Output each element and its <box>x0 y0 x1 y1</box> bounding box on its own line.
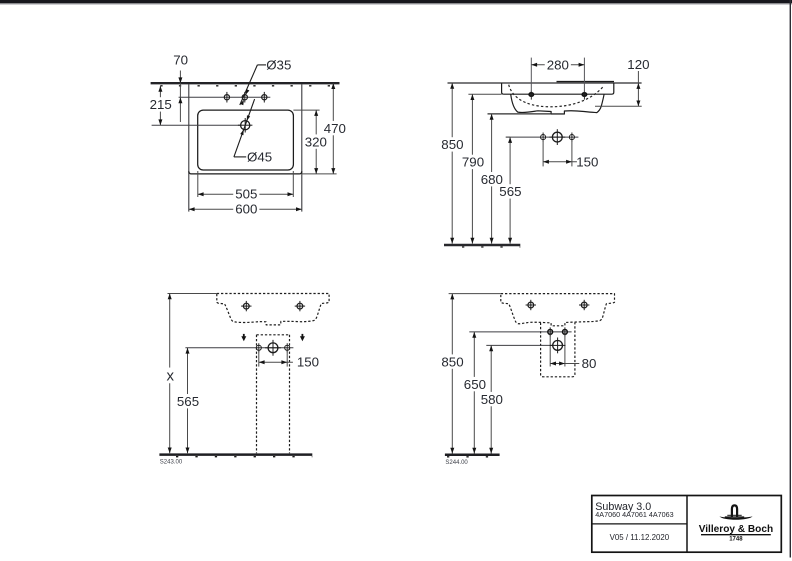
floor line pedestal view <box>159 453 312 456</box>
svg-text:S243.00: S243.00 <box>160 459 183 465</box>
title block horizontal divider <box>592 523 687 525</box>
dimension 850 text <box>439 137 465 151</box>
basin body silhouette <box>511 94 604 114</box>
dimension 790 text <box>460 155 486 169</box>
floor hatch ticks front view <box>462 246 520 248</box>
Villeroy and Boch logo plinth lines <box>727 514 741 516</box>
fixing hole right (280) <box>582 93 587 97</box>
dimension 650 line and arrows <box>473 332 475 454</box>
dimension 850 line and arrows siphon view <box>451 294 453 454</box>
page top border bar <box>0 0 792 3</box>
title block outer frame <box>592 496 782 553</box>
svg-text:565: 565 <box>499 184 521 199</box>
80 extension lines <box>549 335 551 367</box>
dimension 565 text pedestal view <box>175 394 201 408</box>
120 bottom extension line <box>595 105 642 107</box>
150 extension lines front view <box>542 140 544 166</box>
svg-text:580: 580 <box>481 392 503 407</box>
drain hole centre line <box>152 124 241 126</box>
dimension 320 text <box>303 134 329 148</box>
faucet hole right <box>262 95 267 100</box>
790 dimension line and arrows <box>471 94 473 243</box>
fixing hole right dashed view <box>297 303 303 309</box>
faucet hole centre line <box>179 96 271 98</box>
basin outer outline right edge + extensions <box>301 84 303 211</box>
basin outer outline left edge + 600 extension <box>188 84 190 211</box>
floor hatch ticks siphon view <box>447 456 500 458</box>
dimension 470 line and arrows <box>332 83 334 174</box>
front view rim band outline <box>502 83 614 94</box>
tap hole centre line pedestal view <box>185 347 293 349</box>
650 extension line through bolt holes <box>469 331 571 333</box>
leader line O45 <box>234 156 246 158</box>
bowl top edge extension to 320 dimension <box>293 109 319 111</box>
dashed basin outline with pedestal view <box>217 294 329 325</box>
siphon cover dashed outline <box>541 322 575 376</box>
dimension 80 line and arrows <box>550 363 579 365</box>
505 extension lines <box>197 171 199 197</box>
svg-text:S244.00: S244.00 <box>445 460 468 466</box>
dimension 280 line and arrows <box>531 64 584 66</box>
faucet hole middle (O35) <box>242 95 247 100</box>
dimension 680 text <box>479 172 505 186</box>
tap hole left small pedestal view <box>256 345 261 350</box>
floor line front view <box>444 244 520 247</box>
dimension 150 line and arrows pedestal view <box>259 361 293 363</box>
dimension 320 line and arrows <box>315 110 317 174</box>
siphon bolt hole left <box>548 330 553 335</box>
svg-text:600: 600 <box>235 202 257 217</box>
dimension 505 text <box>233 187 259 201</box>
front view back ledge thick segment <box>557 81 615 83</box>
svg-text:850: 850 <box>441 137 463 152</box>
dimension 150 line and arrows front view <box>543 161 577 163</box>
mounting bolt arrow right <box>302 334 304 337</box>
svg-text:650: 650 <box>464 377 486 392</box>
svg-text:150: 150 <box>576 154 598 169</box>
page right border line <box>790 0 791 558</box>
dashed basin outline siphon cover view <box>501 294 615 326</box>
basin inner bowl rounded rectangle <box>198 110 294 170</box>
svg-text:120: 120 <box>627 57 649 72</box>
dimension 120 line and arrows <box>637 71 639 106</box>
svg-text:470: 470 <box>324 121 346 136</box>
dimension 650 text <box>462 377 488 391</box>
565 extension line to tap holes <box>506 136 510 138</box>
leader line O35 <box>257 64 266 66</box>
svg-text:320: 320 <box>305 134 327 149</box>
790 extension line to rim underside <box>468 93 501 95</box>
Villeroy and Boch logo underline <box>701 534 771 536</box>
svg-text:x: x <box>166 368 174 385</box>
dimension 580 line and arrows <box>490 345 492 453</box>
tap hole right small front view <box>569 135 574 140</box>
280 extension lines through rim <box>530 58 532 92</box>
Villeroy and Boch logo amphora handle <box>732 505 737 517</box>
front view rim top line <box>448 82 642 84</box>
floor line siphon view <box>445 453 500 456</box>
dimension x text <box>164 368 176 384</box>
title block vertical divider <box>686 496 688 553</box>
dimension 215 text <box>148 97 174 111</box>
tap hole centre line front view <box>506 136 579 138</box>
faucet hole left <box>224 95 229 100</box>
dimension 565 line and arrows pedestal view <box>187 348 189 454</box>
dimension x line and arrows <box>169 294 171 454</box>
x extension line to basin top <box>168 293 217 295</box>
plan view wall line <box>151 82 340 84</box>
svg-text:V05 / 11.12.2020: V05 / 11.12.2020 <box>610 533 670 542</box>
tap hole left small front view <box>541 135 546 140</box>
fixing hole left siphon view <box>528 302 534 308</box>
svg-text:Villeroy & Boch: Villeroy & Boch <box>699 524 773 535</box>
mounting bolt arrow left <box>243 334 245 337</box>
svg-text:850: 850 <box>441 354 463 369</box>
svg-text:Ø35: Ø35 <box>266 58 291 73</box>
580 extension line to drain <box>486 344 553 346</box>
svg-text:Ø45: Ø45 <box>247 149 272 164</box>
svg-text:215: 215 <box>150 97 172 112</box>
drain hole circle siphon view <box>553 341 563 351</box>
fixing hole right siphon view <box>581 302 587 308</box>
svg-text:505: 505 <box>235 187 257 202</box>
svg-text:80: 80 <box>582 356 597 371</box>
fixing hole left (280) <box>529 93 534 97</box>
svg-text:4A7060 4A7061 4A7063: 4A7060 4A7061 4A7063 <box>595 510 673 519</box>
svg-text:790: 790 <box>462 155 484 170</box>
dimension 680 line and arrows <box>491 114 493 244</box>
dimension 565 line and arrows front view <box>509 137 511 244</box>
dimension 280 text <box>545 57 571 71</box>
svg-text:280: 280 <box>547 57 569 72</box>
tap hole right small pedestal view <box>285 345 290 350</box>
dimension 565 text front view <box>497 184 523 198</box>
svg-text:1748: 1748 <box>729 536 743 542</box>
plan view wall hatch ticks <box>160 85 339 87</box>
fixing hole left dashed view <box>243 303 249 309</box>
850 extension line to basin top right view <box>449 293 501 295</box>
680 extension line under basin <box>488 113 565 115</box>
tap hole centre circle front view <box>552 132 562 142</box>
dimension 850 line and arrows <box>451 83 453 244</box>
150 extension lines pedestal view <box>258 351 260 367</box>
floor hatch ticks pedestal view <box>176 456 312 458</box>
dimension 215 line and arrows <box>159 86 161 125</box>
svg-text:565: 565 <box>177 394 199 409</box>
tap hole centre circle pedestal view <box>268 343 278 353</box>
dimension 850 text siphon view <box>439 354 465 368</box>
dimension 600 text <box>233 202 259 216</box>
dimension 70 line and arrows <box>179 71 181 123</box>
Villeroy and Boch logo saucer swoosh <box>719 516 752 519</box>
dimension 600 line and arrows <box>189 208 302 210</box>
svg-text:70: 70 <box>173 53 188 68</box>
drain hole O45 circle with cross <box>241 121 250 130</box>
dimension 580 text <box>479 392 505 406</box>
470 bottom extension line <box>302 173 337 175</box>
basin bowl hidden dashed curve <box>509 85 603 107</box>
pedestal dashed outline <box>257 334 290 336</box>
dimension 470 text <box>322 121 348 135</box>
svg-text:150: 150 <box>297 355 319 370</box>
dimension 505 line and arrows <box>198 193 293 195</box>
basin outer outline bottom edge <box>189 171 302 174</box>
siphon bolt hole right <box>563 330 568 335</box>
